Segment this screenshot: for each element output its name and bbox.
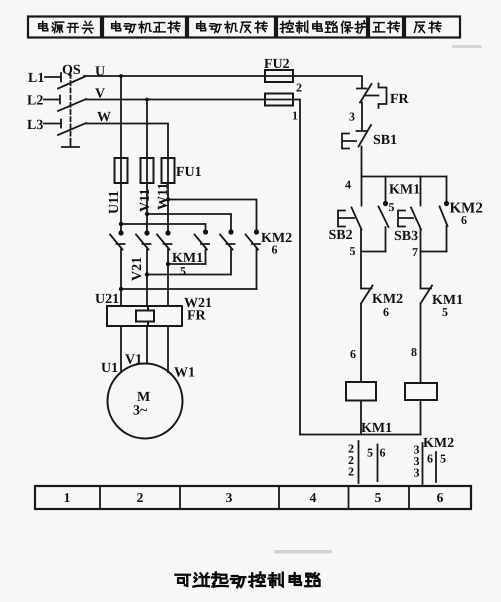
svg-text:6: 6 (427, 452, 433, 466)
svg-text:V1: V1 (125, 353, 142, 368)
svg-text:U1: U1 (101, 361, 118, 376)
L2 terminal (44, 96, 60, 104)
svg-text:6: 6 (350, 347, 356, 361)
svg-text:6: 6 (461, 213, 467, 227)
KM1 coil (346, 382, 376, 401)
crossover wire KM2#1 to W column (168, 263, 206, 265)
QS linkage dashed (70, 74, 72, 140)
header cell 4: 控制电路保护 (280, 21, 368, 33)
svg-text:6: 6 (437, 490, 444, 505)
Latin labels (27, 57, 483, 451)
header cell 1: 电源开关 (39, 21, 94, 33)
KM1 main contact 2 (136, 235, 151, 307)
header cell 6: 反转 (414, 21, 441, 32)
crossover wire KM2#3 to U column (121, 288, 257, 290)
fuse FU1 a (115, 158, 128, 183)
svg-text:V21: V21 (130, 257, 145, 281)
SB1 stop button NC (342, 125, 371, 177)
svg-text:KM1: KM1 (172, 251, 203, 266)
svg-text:4: 4 (345, 178, 351, 192)
svg-text:L1: L1 (28, 71, 44, 86)
svg-text:6: 6 (383, 305, 389, 319)
scan smudge top right (452, 45, 482, 48)
svg-text:3: 3 (226, 490, 233, 505)
rotated labels (107, 183, 171, 281)
L3 terminal (44, 120, 61, 128)
wires coils to bottom rail (361, 400, 421, 435)
QS blade L3 (58, 123, 86, 135)
svg-text:W1: W1 (174, 366, 195, 381)
svg-text:FU2: FU2 (264, 57, 290, 72)
svg-text:8: 8 (411, 345, 417, 359)
motor M circle (108, 364, 183, 439)
svg-text:W11: W11 (156, 183, 171, 210)
KM1 aux contact NO (379, 177, 389, 252)
svg-text:7: 7 (412, 245, 418, 259)
scan smudge above title (274, 550, 332, 554)
node 5 wire (361, 251, 386, 253)
QS blade L2 (58, 99, 86, 111)
feed U11 to KM2 contact 1 (121, 224, 206, 230)
KM1 NC interlock (421, 286, 433, 384)
svg-text:U11: U11 (107, 191, 122, 214)
fuse FU1 c (162, 158, 175, 183)
svg-text:5: 5 (350, 244, 356, 258)
svg-text:KM2: KM2 (423, 436, 454, 451)
bottom rail (300, 434, 421, 436)
svg-text:2: 2 (296, 81, 302, 95)
KM2 NC interlock (361, 286, 373, 383)
svg-text:3: 3 (349, 110, 355, 124)
svg-text:1: 1 (64, 490, 71, 505)
wire U line (84, 76, 362, 87)
svg-text:SB2: SB2 (329, 228, 353, 243)
svg-text:FR: FR (187, 309, 207, 324)
svg-text:5: 5 (442, 305, 448, 319)
control junction dots (383, 201, 449, 206)
terminal drop bars (359, 441, 437, 484)
KM1 main contact 1 (110, 235, 125, 307)
crossover wire KM2#2 to V column (147, 274, 231, 276)
strip numbers (64, 490, 444, 505)
feed V11 to KM2 contact 2 (147, 214, 231, 230)
QS handle (62, 140, 79, 147)
svg-text:KM1: KM1 (361, 421, 392, 436)
svg-text:3: 3 (414, 466, 420, 480)
svg-text:SB3: SB3 (394, 229, 418, 244)
svg-text:V11: V11 (138, 189, 153, 212)
wire V column drop (146, 100, 148, 234)
KM2 main contact 3 (246, 235, 261, 290)
header cell 5: 正转 (373, 21, 399, 32)
svg-text:FR: FR (390, 92, 410, 107)
KM2 aux contact NO (440, 177, 448, 252)
fuse FU2 upper (2) (265, 70, 293, 82)
terminal annotation numbers (348, 442, 446, 480)
wire W line (86, 124, 168, 234)
SB3 start button NO (398, 177, 421, 288)
QS blade L1 (58, 77, 85, 89)
svg-text:U: U (95, 65, 105, 80)
header cell 3: 电动机反转 (197, 21, 267, 32)
svg-text:W: W (97, 110, 111, 125)
svg-text:FU1: FU1 (176, 165, 202, 180)
L1 terminal (45, 73, 61, 82)
svg-text:L2: L2 (27, 94, 43, 109)
junction dots power (118, 74, 259, 291)
svg-text:5: 5 (367, 446, 373, 460)
svg-text:QS: QS (62, 63, 81, 78)
KM2 main contact 2 (220, 235, 235, 275)
wire V line (86, 100, 300, 435)
node 7 wire (421, 251, 447, 253)
svg-text:V: V (95, 87, 105, 102)
KM2 coil (405, 383, 437, 400)
svg-text:L3: L3 (27, 118, 43, 133)
fuse FU1 b (141, 158, 154, 183)
SB2 start button NO (338, 177, 362, 288)
header row boxes (28, 17, 460, 38)
terminal strip (35, 486, 471, 509)
svg-text:2: 2 (137, 490, 144, 505)
svg-text:KM1: KM1 (389, 183, 420, 198)
header cell 2: 电动机正转 (112, 21, 180, 32)
feed W11 to KM2 contact 3 (168, 200, 257, 231)
FR thermal element symbol (365, 84, 387, 109)
node 4 wire (362, 176, 447, 178)
svg-text:5: 5 (389, 200, 395, 214)
svg-text:5: 5 (440, 452, 446, 466)
FR NC contact (control) (357, 84, 372, 130)
svg-text:2: 2 (348, 465, 354, 479)
fuse FU2 lower (1) (265, 94, 293, 106)
FR heater notch (136, 306, 154, 326)
svg-text:6: 6 (380, 446, 386, 460)
svg-text:5: 5 (180, 264, 186, 278)
FR heater box (107, 306, 182, 326)
wires FR box to motor (121, 326, 168, 372)
KM1 main contact 3 (157, 235, 172, 307)
svg-text:4: 4 (310, 490, 317, 505)
svg-text:SB1: SB1 (373, 133, 397, 148)
KM2 main contact 1 (195, 235, 210, 265)
svg-text:U21: U21 (95, 292, 119, 307)
svg-text:6: 6 (272, 243, 278, 257)
svg-text:1: 1 (292, 109, 298, 123)
svg-text:5: 5 (375, 490, 382, 505)
title 可逆起动控制电路 (175, 572, 319, 587)
svg-text:3~: 3~ (133, 404, 148, 419)
wire U column drop (120, 76, 122, 233)
